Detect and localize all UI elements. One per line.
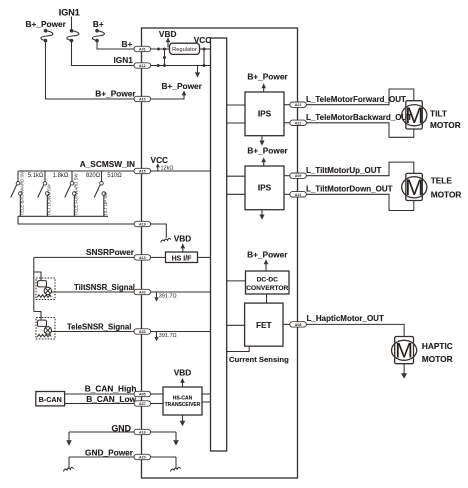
wire FET sense to MCU [227,346,250,351]
B-CAN node box [36,392,65,406]
B+_Power arrow to IPS U3 [261,157,266,166]
svg-text:B+_Power: B+_Power [247,250,288,260]
svg-text:A22: A22 [295,121,302,125]
wire GND row [69,431,176,433]
node VCC (switch pull-up label) [151,155,169,165]
wire MCU to IPS U3 in2 [227,193,245,195]
svg-text:B+_Power: B+_Power [26,19,67,29]
svg-text:TILT: TILT [430,108,447,118]
resistor R3 820 value [86,173,101,179]
haptic motor M3 [392,337,417,364]
svg-text:HS-CAN: HS-CAN [173,396,193,402]
svg-text:L_TiltMotorUp_OUT: L_TiltMotorUp_OUT [306,166,382,175]
FET Q1 [245,303,283,346]
resistor R5 391.7 pulldown [154,292,176,302]
svg-text:B_CAN_Low: B_CAN_Low [86,394,136,404]
connector A12 [134,63,151,68]
svg-text:B+: B+ [93,19,104,29]
tele sensor S2 [36,318,55,340]
wire FET to A08 [283,323,290,325]
wire IPS U2 out2 to A22 [284,122,290,124]
wire switch top rail [18,170,134,172]
net B_CAN_Low [86,394,136,404]
connector A16 [134,429,151,434]
wire S2 output to A03 [52,331,135,333]
junction dots B+ row [157,48,166,51]
wire IPS U2 out1 to A21 [284,104,290,106]
svg-text:A20: A20 [139,456,146,460]
connector A05 [134,391,151,396]
svg-text:A21: A21 [295,103,302,107]
svg-text:IPS: IPS [258,109,272,119]
ground arrow GND right [173,432,179,446]
wire VCC down to IGN1 row [203,49,205,66]
svg-text:M: M [405,103,423,128]
connector A19 [134,221,151,226]
svg-text:HS I/F: HS I/F [172,255,193,262]
resistor R6 391.7 pulldown [154,332,176,342]
switch SW2 label [47,183,52,215]
wire IGN1 label to fuse F2 [71,17,73,29]
svg-text:A01: A01 [139,48,146,52]
net L_TeleMotorForward_OUT [306,95,406,104]
svg-text:MOTOR: MOTOR [431,190,462,200]
tilt motor M1 [402,101,427,129]
wire regulator to MCU [200,48,211,50]
svg-text:M: M [395,339,413,363]
fuse F3 [92,29,104,42]
svg-text:B+_Power: B+_Power [247,72,288,82]
wire switch bottom rail [18,215,108,217]
svg-text:GND_Power: GND_Power [85,448,134,458]
wire transceiver to MCU hi [202,393,211,395]
connector A22 [290,120,307,125]
switch SW1 label [20,170,25,216]
node B+_Power (IPS U3 label) [247,146,288,156]
wire sensor supply drop [33,257,35,311]
wire MCU to FET [227,324,245,326]
wire supply into sensor S1 [34,272,41,281]
switch SW2 TILT DOWN [38,171,49,216]
switch SW1 TELE BACKWARD [11,171,22,216]
haptic motor label [422,341,453,364]
wire B_CAN_Low [65,403,134,405]
svg-text:M: M [405,175,423,200]
net B_CAN_High [85,384,137,394]
node B+ (outside label) [122,39,133,49]
wire A02 to MCU [151,291,211,293]
net L_TiltMotorUp_OUT [306,166,382,175]
svg-text:A12: A12 [139,64,146,68]
node VBD (top label) [159,29,177,39]
wire fuse F2 to connector A12 [72,42,135,65]
VBD arrow to transceiver [180,378,185,387]
wire A19 to chassis ground [151,224,167,238]
connector A01 [134,46,151,51]
svg-text:A19: A19 [139,223,146,227]
svg-text:B+_Power: B+_Power [95,89,136,99]
svg-text:L_TiltMotorDown_OUT: L_TiltMotorDown_OUT [306,184,393,193]
junction dot VCC [203,48,206,51]
wire B_CAN_High [65,393,134,395]
svg-text:IGN1: IGN1 [59,7,80,17]
wire B+_Power row inside to arrow [151,90,187,99]
wire A11 to tele motor [306,194,413,210]
connector A10 [134,96,151,101]
VBD arrow to HS I/F [181,243,186,251]
svg-text:VBD: VBD [159,29,177,39]
net L_HapticMotor_OUT [307,314,384,323]
tele motor M2 [402,173,427,200]
resistor R1 5.1k value [28,173,44,179]
svg-text:CONVERTOR: CONVERTOR [246,285,288,292]
svg-text:391.7Ω: 391.7Ω [159,294,177,300]
svg-text:MOTOR: MOTOR [422,354,453,364]
ground arrow below transceiver [180,415,186,426]
wire A15 to MCU [151,170,211,172]
net L_TiltMotorDown_OUT [306,184,393,193]
chassis ground GND_Power left [64,457,74,472]
regulator U1 [170,43,200,54]
svg-text:A02: A02 [139,291,146,295]
svg-text:DC-DC: DC-DC [257,276,278,283]
wire fuse F3 to connector A01 [97,42,134,49]
svg-text:B+_Power: B+_Power [162,81,203,91]
svg-text:L_HapticMotor_OUT: L_HapticMotor_OUT [307,314,384,323]
svg-text:IPS: IPS [258,183,272,193]
switch SW4 label [103,191,108,216]
svg-text:5.1kΩ: 5.1kΩ [28,173,44,179]
net L_TeleMotorBackward_OUT [306,113,412,122]
VBD arrow (top) [166,37,171,47]
svg-text:A13: A13 [139,256,146,260]
svg-text:1.8kΩ: 1.8kΩ [53,173,69,179]
svg-text:Regulator: Regulator [172,47,197,53]
svg-text:IGN1: IGN1 [114,55,134,65]
svg-text:A11: A11 [295,193,301,197]
svg-text:B+: B+ [122,39,133,49]
svg-text:B-CAN: B-CAN [39,395,62,404]
wire MCU to IPS U2 in1 [227,104,245,106]
node B+_Power (DC-DC label) [247,250,288,260]
node TiltSNSR_Signal [74,283,135,292]
svg-text:B_CAN_High: B_CAN_High [85,384,137,394]
switch SW4 TILT UP [94,171,105,216]
connector A20 [134,454,151,459]
HS I/F block [166,252,198,263]
connector A13 [134,255,151,260]
wire transceiver to MCU lo [202,401,211,403]
ground arrow below IPS U3 [259,210,264,220]
B+_Power arrow to DC-DC [264,259,269,271]
resistor R4 510 value [107,173,122,179]
wire GND_Power row [69,456,176,458]
node SNSRPower [86,247,135,257]
svg-text:TiltSNSR_Signal: TiltSNSR_Signal [74,283,135,292]
switch SW3 label [74,173,79,216]
chassis ground (switch common) [161,238,171,242]
connector A03 [134,329,151,334]
wire MCU to DC-DC [227,280,246,282]
svg-text:A16: A16 [139,431,146,435]
fuse F1 [41,29,53,42]
node IGN1 (outside label) [114,55,134,65]
ground arrow below IPS U2 [259,136,264,146]
wire SNSRPower row [34,256,134,258]
svg-text:Current Sensing: Current Sensing [229,355,289,364]
wire A08 to haptic motor [306,324,404,336]
wire A21 to tilt motor [306,89,413,105]
wire A03 to MCU [151,331,211,333]
wire A13 to HS I/F [151,256,166,258]
wire IGN1 row inside [151,65,211,67]
wire A22 to tilt motor [306,123,413,138]
wire DC-DC to FET [266,294,268,303]
svg-text:SNSRPower: SNSRPower [86,247,135,257]
node A_SCMSW_IN [80,159,135,169]
svg-text:L_TeleMotorForward_OUT: L_TeleMotorForward_OUT [306,95,406,104]
connector A21 [290,102,307,107]
node B+_Power (IPS U2 label) [247,72,288,82]
node B+_Power (outside label) [95,89,136,99]
connector A09 [290,173,307,178]
svg-text:A07: A07 [139,402,146,406]
svg-text:A08: A08 [295,323,302,327]
svg-text:A09: A09 [295,174,302,178]
svg-text:TRANSCEIVER: TRANSCEIVER [165,402,201,408]
wire HS I/F to MCU [198,256,211,258]
resistor 12k pull-up value [161,166,174,172]
svg-text:B+_Power: B+_Power [247,146,288,156]
ground arrow below haptic motor [401,364,407,379]
svg-text:FET: FET [256,320,272,330]
connector A02 [134,289,151,294]
svg-text:TILT UP SW: TILT UP SW [103,191,108,216]
svg-text:A_SCMSW_IN: A_SCMSW_IN [80,159,135,169]
node TeleSNSR_Signal [67,322,131,331]
wire IPS U3 out2 to A11 [284,193,290,195]
svg-text:TILT DOWN SW: TILT DOWN SW [47,183,52,215]
svg-text:TELE BACKWARD SW: TELE BACKWARD SW [20,170,25,216]
svg-text:MOTOR: MOTOR [430,120,461,130]
svg-text:820Ω: 820Ω [86,173,101,179]
switch SW3 TELE FORWARD [65,171,76,216]
svg-text:510Ω: 510Ω [107,173,122,179]
svg-text:HAPTIC: HAPTIC [422,341,453,351]
fuse F2 [67,29,79,42]
svg-text:TELE: TELE [431,175,453,185]
VCC pull-up wire with arrow [156,163,160,171]
tilt sensor S1 [36,278,55,300]
node B+_Power (inside label) [162,81,203,91]
IPS U3 [245,166,284,210]
chassis ground GND_Power right [171,457,181,472]
current sensing label [229,355,289,364]
connector A07 [134,401,151,406]
connector A15 [134,168,151,173]
svg-text:L_TeleMotorBackward_OUT: L_TeleMotorBackward_OUT [306,113,412,122]
resistor R2 1.8k value [53,173,69,179]
DC-DC convertor U4 [246,271,290,294]
module outer box [142,28,298,478]
wire fuse F1 to connector A10 [46,42,135,99]
svg-text:A10: A10 [139,98,146,102]
wire supply into sensor S2 [34,312,41,321]
wire S1 output to A02 [52,291,135,293]
wire A09 to tele motor [306,162,413,176]
junction dots IGN1 row [157,64,206,67]
HS-CAN transceiver U5 [163,387,202,415]
wire MCU to IPS U2 in2 [227,122,245,124]
node GND [111,424,131,434]
connector A08 [290,322,307,327]
ground arrow below IGN1 row [195,66,200,78]
svg-text:VBD: VBD [174,233,192,243]
fuse F1 B+_Power label [26,19,67,29]
svg-text:VCC: VCC [151,155,169,165]
fuse F3 B+ label [93,19,104,29]
tele motor label [431,175,462,199]
IPS U2 [245,92,284,136]
tilt motor label [430,108,461,129]
node GND_Power [85,448,134,458]
connector A11 [290,192,307,197]
wire A05 to transceiver [151,393,163,395]
wire B+ row to IGN1 row [163,49,166,66]
svg-text:TeleSNSR_Signal: TeleSNSR_Signal [67,322,131,331]
svg-text:391.7Ω: 391.7Ω [159,333,177,339]
svg-text:A15: A15 [139,170,146,174]
wire MCU to IPS U3 in1 [227,175,245,177]
node VBD (transceiver label) [174,367,192,377]
wire A07 to transceiver [151,403,163,405]
svg-text:VBD: VBD [174,367,192,377]
svg-text:VCC: VCC [194,35,212,45]
wire IPS U3 out1 to A09 [284,175,290,177]
node VBD (HS I/F label) [174,233,192,243]
ground arrow GND left [66,432,72,446]
wire B+ row inside [151,48,170,50]
svg-text:A03: A03 [139,330,146,334]
svg-text:A05: A05 [139,393,146,397]
node VCC (top label) [194,35,212,45]
MCU block [211,38,227,451]
svg-text:TELE FORWARD SW: TELE FORWARD SW [74,173,79,216]
wire bottom rail to connector A19 [18,216,134,224]
fuse F2 IGN1 label [59,7,80,17]
B+_Power arrow to IPS U2 [261,83,266,92]
